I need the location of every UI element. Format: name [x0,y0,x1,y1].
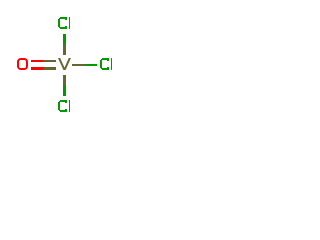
double bond O=V lower line, O half (red) [31,67,44,70]
atom Cl top (green): l [69,17,70,29]
double bond O=V lower line, V half (olive) [44,67,57,70]
atom O (red) [18,59,27,69]
atom Cl right (green): l [111,58,112,70]
atom Cl bottom (green): C [58,100,67,112]
bond V-Cl bottom, V half (olive) [63,75,66,86]
double bond O=V upper line, V half (olive) [44,60,57,62]
bond V-Cl top, V half (olive) [63,45,66,56]
bond V-Cl right, Cl half (green) [86,64,98,66]
atom Cl bottom (green): l [69,100,70,112]
bond V-Cl top, Cl half (green) [63,34,66,45]
double bond O=V upper line, O half (red) [31,60,44,62]
atom V (olive) [58,58,71,70]
atom Cl top (green): C [58,17,67,29]
background [0,0,130,130]
atom Cl right (green): C [100,58,109,70]
molecule VOCl3 structure [0,0,130,130]
bond V-Cl bottom, Cl half (green) [63,86,66,97]
bond V-Cl right, V half (olive) [72,64,86,66]
